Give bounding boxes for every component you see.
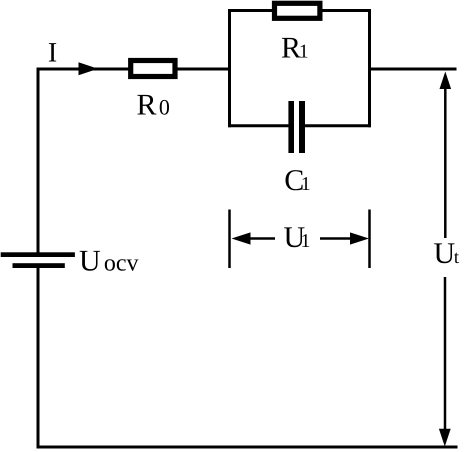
battery Uocv bottom plate [13, 263, 65, 268]
svg-text:I: I [48, 38, 57, 69]
resistor R1 [275, 3, 320, 18]
wire: RC loop left edge [228, 9, 231, 127]
wire: RC loop right edge [368, 9, 371, 127]
Ut arrow top head [440, 72, 452, 90]
wire: left vertical lower segment [37, 268, 40, 449]
wire: R0 to RC loop [177, 68, 231, 71]
wire: RC loop to right output terminal [369, 68, 457, 71]
Ut arrow upper line [444, 87, 447, 238]
capacitor C1 [288, 101, 294, 153]
battery Uocv top plate [1, 252, 75, 257]
U1 right arrow [320, 237, 351, 240]
wire: top horizontal from corner to R0 [37, 68, 130, 71]
U1 dimension left bar [228, 210, 231, 269]
current arrow I [79, 62, 99, 75]
Ut arrow bottom head [439, 429, 451, 447]
U1 left arrow [232, 232, 251, 244]
wire: left vertical upper segment [37, 68, 40, 253]
wire: RC loop bottom edge left part [228, 124, 290, 127]
Ut arrow lower line [444, 277, 447, 430]
U1 dimension right bar [368, 210, 371, 269]
wire: RC loop bottom edge right part [304, 124, 371, 127]
wire: RC loop top edge [228, 9, 371, 12]
wire: bottom horizontal [37, 446, 458, 449]
resistor R0 [131, 61, 175, 77]
